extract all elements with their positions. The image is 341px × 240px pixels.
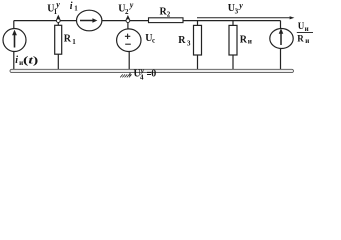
wire R3 stubs (197, 21, 199, 70)
resistor R1 (55, 25, 62, 54)
ground (129, 73, 131, 77)
wire R1 stubs (57, 21, 59, 70)
svg-text:и: и (248, 38, 252, 46)
resistor R3 (194, 25, 202, 55)
svg-text:R: R (178, 35, 186, 46)
voltage source Uc (117, 29, 141, 52)
svg-text:2: 2 (167, 10, 171, 18)
svg-text:с: с (152, 37, 155, 45)
node 3 arrow (197, 17, 290, 19)
resistor R2 (149, 18, 184, 23)
svg-text:1: 1 (74, 5, 78, 13)
svg-text:у: у (55, 0, 60, 9)
svg-text:3: 3 (187, 40, 191, 48)
node 1 circle (56, 19, 60, 23)
svg-text:и: и (305, 25, 309, 33)
svg-text:i: i (70, 1, 73, 12)
svg-text:и: и (305, 37, 309, 45)
wire Rn stubs (232, 21, 234, 70)
node 2 arrow (126, 15, 130, 19)
svg-text:у: у (140, 66, 145, 75)
svg-text:у: у (129, 0, 134, 9)
svg-text:1: 1 (72, 38, 76, 46)
svg-text:у: у (238, 1, 243, 10)
current source Un/Rn right (270, 29, 293, 49)
svg-text:0: 0 (151, 69, 156, 80)
wire right drop (280, 21, 282, 70)
current source iu(t) left (3, 29, 26, 52)
resistor Rn (229, 25, 237, 55)
wire top rail (14, 20, 281, 22)
bottom rail bus (10, 69, 294, 72)
svg-text:i: i (15, 55, 18, 66)
svg-text:2: 2 (125, 8, 129, 16)
svg-text:3: 3 (235, 8, 239, 16)
svg-text:R: R (297, 34, 304, 44)
svg-text:R: R (240, 35, 248, 46)
wire left rail (13, 21, 15, 70)
wire Uc stubs (128, 21, 129, 70)
node 2 circle (126, 19, 130, 23)
node 1 arrow (56, 15, 60, 19)
svg-text:R: R (64, 34, 72, 45)
svg-text:(t): (t) (23, 56, 39, 67)
current source i1 top (77, 10, 102, 31)
